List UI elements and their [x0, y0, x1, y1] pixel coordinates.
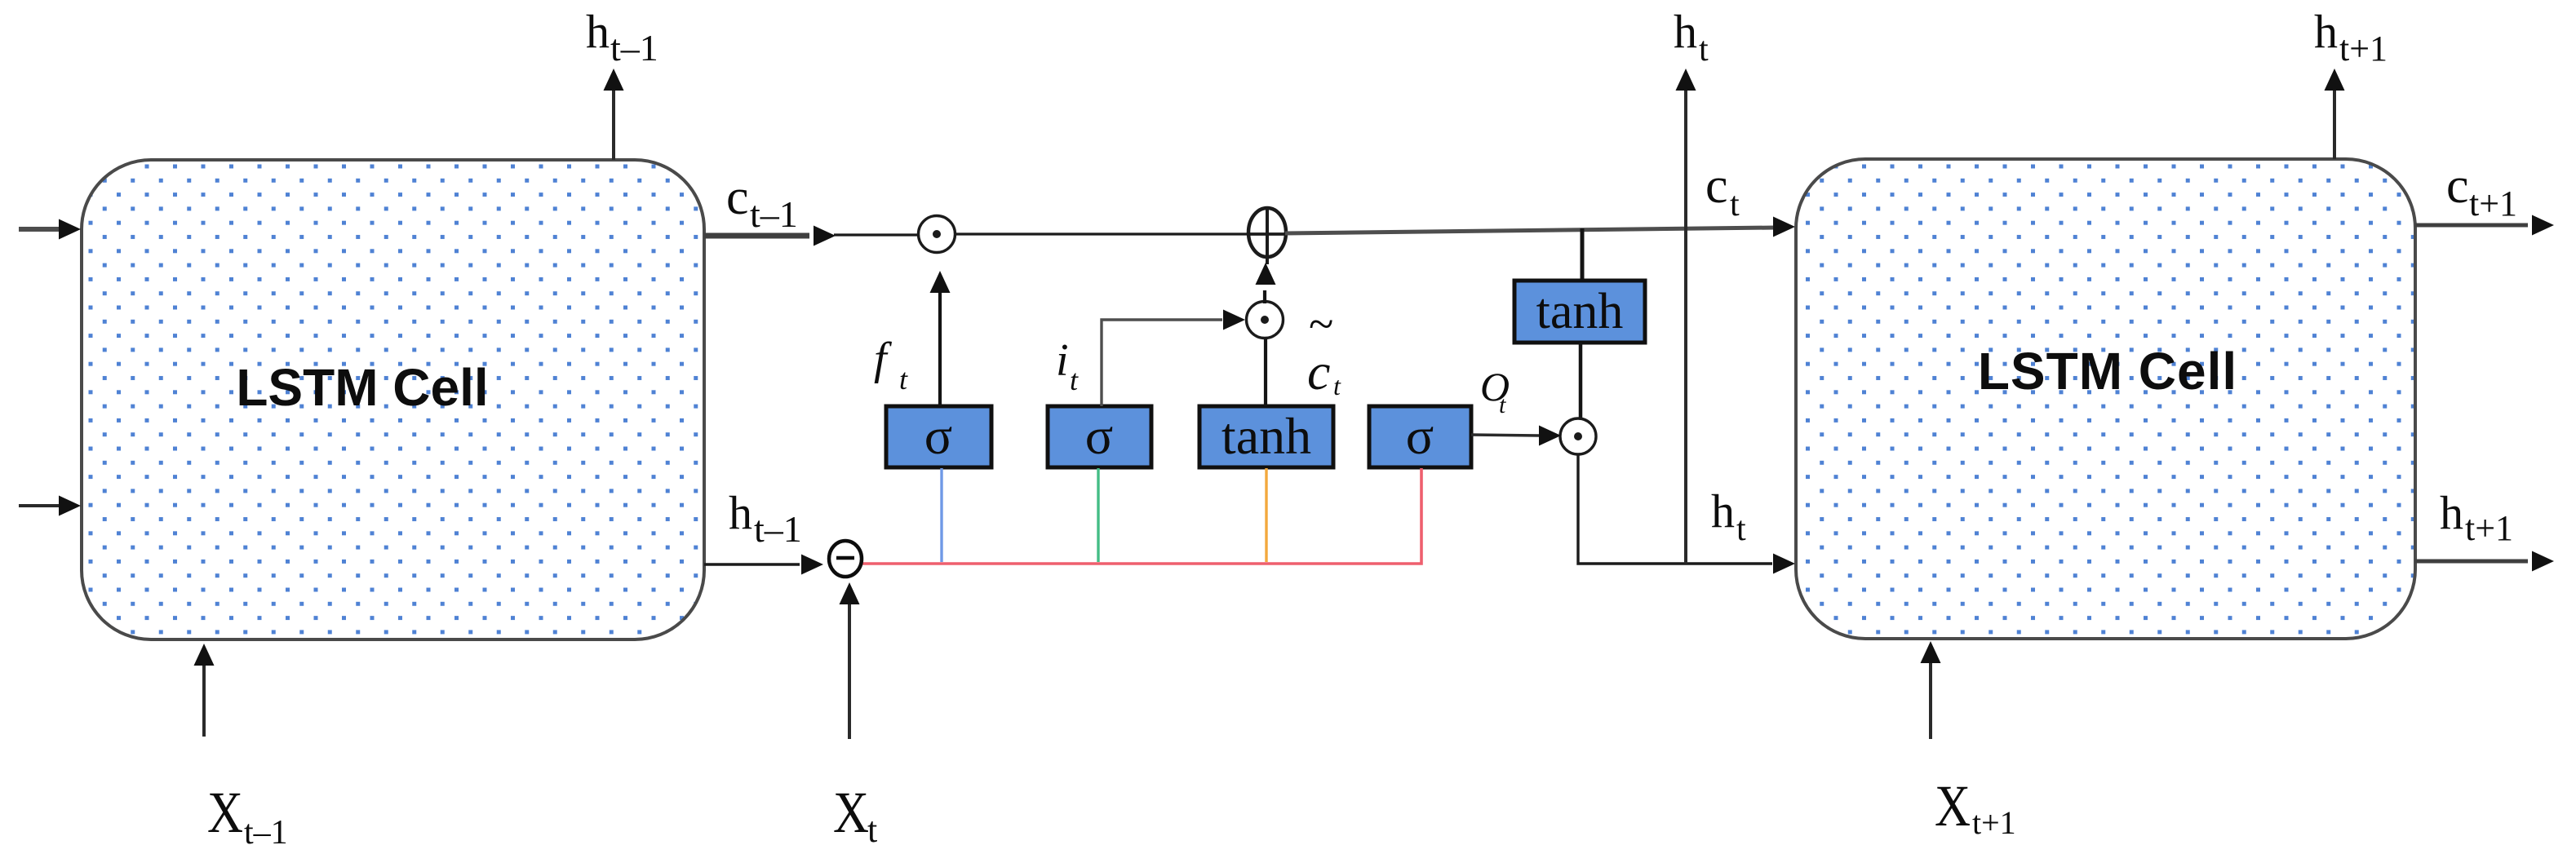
svg-text:σ: σ	[1085, 407, 1114, 465]
wire red from sigma o and bus	[862, 468, 1421, 564]
svg-text:h: h	[2440, 486, 2463, 539]
svg-text:t–1: t–1	[754, 508, 802, 550]
svg-text:LSTM Cell: LSTM Cell	[236, 358, 488, 417]
svg-text:h: h	[1711, 485, 1735, 538]
svg-text:t: t	[1699, 31, 1709, 69]
sigma gate o	[1369, 406, 1471, 467]
label c t+1	[2446, 158, 2517, 223]
svg-text:c: c	[1705, 158, 1728, 214]
sigma gate i	[1048, 406, 1151, 467]
svg-text:X: X	[1935, 773, 1971, 839]
svg-text:tanh: tanh	[1536, 284, 1624, 339]
wire c(t+1) output right	[2415, 215, 2554, 236]
wire X(t-1) input arrow	[194, 644, 215, 737]
theta node	[829, 541, 862, 577]
wire h(t) down and right into right cell	[1578, 454, 1795, 574]
svg-text:t: t	[1736, 511, 1746, 548]
wire h(t) vertical output	[1676, 69, 1696, 564]
svg-text:c: c	[1307, 343, 1330, 400]
add node oplus	[1248, 206, 1286, 264]
svg-text:t: t	[1499, 392, 1506, 418]
label h t+1 top	[2314, 5, 2388, 69]
wire c(t) long line to right cell	[1285, 217, 1795, 237]
label h t-1 top	[586, 5, 658, 69]
label X t	[833, 780, 877, 850]
wire tanh to multiply node	[1579, 343, 1583, 418]
wire orange from tanh gate	[1265, 468, 1267, 562]
label X t+1	[1935, 773, 2016, 841]
wire h(t-1) from left cell to theta	[704, 555, 823, 575]
wire c line middle	[954, 232, 1248, 235]
svg-text:t–1: t–1	[610, 27, 658, 69]
sigma gate f	[886, 406, 991, 467]
wire f gate up arrow	[930, 271, 951, 406]
svg-text:h: h	[1674, 5, 1697, 58]
multiply node (input)	[1247, 302, 1284, 339]
tanh gate	[1199, 406, 1333, 467]
label h t+1 right	[2440, 486, 2513, 548]
svg-text:X: X	[833, 780, 869, 845]
LSTM cell right box	[1796, 159, 2415, 639]
svg-text:t+1: t+1	[2339, 29, 2388, 69]
label o t	[1480, 364, 1510, 418]
wire input arrow upper-left	[19, 219, 81, 240]
multiply node (output)	[1560, 418, 1596, 454]
svg-text:t: t	[899, 363, 908, 396]
svg-text:i: i	[1056, 335, 1069, 386]
wire c(t-1) from left cell	[704, 226, 920, 246]
wire X(t) input arrow	[840, 582, 860, 739]
label f t	[874, 334, 908, 396]
wire h(t-1) output top of left cell	[604, 69, 624, 160]
svg-text:t+1: t+1	[1972, 804, 2016, 841]
svg-text:σ: σ	[924, 407, 953, 465]
svg-text:c: c	[2446, 158, 2469, 214]
wire branch down to tanh	[1581, 228, 1585, 281]
label c t	[1705, 158, 1740, 223]
svg-text:σ: σ	[1406, 407, 1434, 465]
wire tanh gate up to multiply	[1264, 339, 1267, 406]
svg-text:t: t	[867, 810, 877, 850]
wire input-multiply up to add node	[1256, 263, 1276, 303]
svg-text:t+1: t+1	[2465, 508, 2513, 548]
svg-text:h: h	[586, 5, 610, 58]
wire blue from sigma f	[940, 468, 942, 562]
label h t top	[1674, 5, 1709, 69]
svg-text:h: h	[729, 486, 752, 539]
wire o gate to output multiply	[1471, 426, 1561, 446]
svg-text:h: h	[2314, 5, 2338, 58]
svg-text:c: c	[726, 170, 749, 225]
svg-text:t: t	[1730, 186, 1740, 223]
svg-text:t: t	[1333, 371, 1341, 400]
label i t	[1056, 335, 1079, 396]
wire X(t+1) input arrow	[1921, 641, 1941, 739]
wire input arrow lower-left	[19, 496, 81, 516]
svg-text:~: ~	[1309, 299, 1333, 350]
label X t-1	[207, 780, 288, 852]
wire h(t+1) output right	[2415, 551, 2554, 572]
label h t middle	[1711, 485, 1746, 548]
multiply node (forget) on c line	[919, 216, 955, 253]
svg-text:X: X	[207, 780, 243, 845]
label c~ t	[1307, 299, 1341, 400]
wire h(t+1) output top	[2325, 69, 2345, 159]
LSTM cell left box	[82, 160, 704, 639]
label h t-1 middle	[729, 486, 802, 550]
svg-text:LSTM Cell: LSTM Cell	[1978, 342, 2237, 400]
wire i gate elbow arrow	[1102, 310, 1245, 407]
tanh block upper right	[1514, 281, 1645, 343]
svg-text:t–1: t–1	[244, 814, 288, 852]
svg-text:t+1: t+1	[2469, 184, 2517, 223]
svg-text:t–1: t–1	[750, 193, 798, 235]
svg-text:tanh: tanh	[1221, 407, 1311, 465]
wire green from sigma i	[1097, 468, 1099, 562]
label c t-1	[726, 170, 798, 235]
svg-text:t: t	[1070, 364, 1079, 396]
